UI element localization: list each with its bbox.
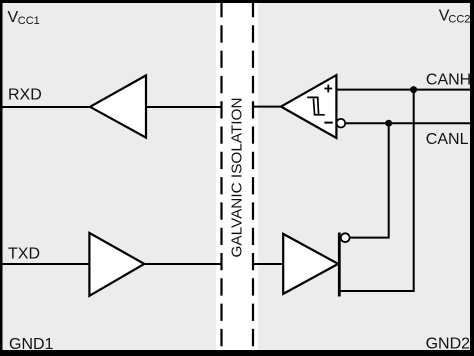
wire CANH vertical to driver output (341, 90, 414, 291)
svg-text:GALVANIC ISOLATION: GALVANIC ISOLATION (229, 98, 246, 258)
wire TXD buffer output to isolation (145, 263, 222, 265)
svg-text:GND2: GND2 (426, 336, 471, 353)
svg-text:GND1: GND1 (9, 336, 54, 353)
svg-text:RXD: RXD (8, 87, 42, 104)
plus input mark (324, 85, 332, 93)
inverting bubble on driver CANL output (341, 233, 350, 242)
wire RXD buffer output to isolation (146, 106, 221, 108)
buffer RXD (points left) (90, 75, 146, 137)
wire CANL net horizontal (345, 122, 471, 124)
svg-text:CC2: CC2 (448, 14, 470, 26)
svg-text:CANH: CANH (426, 71, 471, 88)
driver output bar (338, 233, 341, 297)
svg-text:CANL: CANL (426, 131, 469, 148)
buffer TXD (points right) (89, 233, 144, 296)
svg-text:CC1: CC1 (18, 15, 40, 27)
wire TXD input (2, 263, 90, 265)
isolation dashed line right (252, 0, 254, 350)
wire isolation to driver input (254, 263, 284, 265)
svg-text:TXD: TXD (8, 246, 40, 263)
wire RXD input (2, 106, 90, 108)
hysteresis symbol (307, 97, 325, 114)
galvanic isolation white strip (216, 3, 258, 350)
junction CANH (410, 86, 417, 93)
isolation dashed line left (220, 0, 222, 350)
wire CANH net horizontal (337, 89, 472, 91)
minus input mark (324, 122, 332, 124)
receiver comparator U-RX (points left) (281, 75, 336, 138)
driver U-TX (points right) (283, 234, 338, 294)
junction CANL (385, 120, 392, 127)
wire receiver output to isolation (254, 106, 282, 108)
inverting bubble on receiver minus input (337, 119, 346, 128)
wire CANL vertical to driver inverted output (350, 123, 389, 237)
